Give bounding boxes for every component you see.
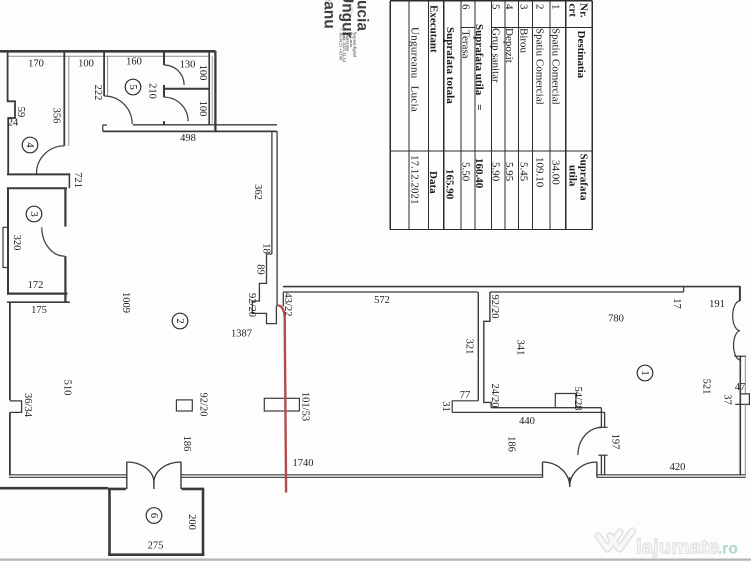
svg-text:275: 275: [148, 541, 164, 552]
svg-text:1740: 1740: [293, 458, 314, 469]
wall room1 top inner east: [490, 291, 683, 293]
svg-text:2: 2: [174, 318, 186, 324]
svg-text:170: 170: [28, 59, 44, 70]
bottom gray border: [0, 558, 751, 560]
wall bottom middle line1: [181, 474, 543, 476]
svg-text:321: 321: [464, 339, 475, 355]
svg-text:54/28: 54/28: [572, 387, 583, 411]
svg-text:356: 356: [51, 108, 62, 124]
room6 bottom wall: [108, 553, 204, 556]
wall small rooms right inner: [208, 53, 210, 126]
door arc room5: [104, 96, 132, 124]
svg-text:101/53: 101/53: [300, 392, 311, 421]
wall top-right outer vertical: [214, 51, 216, 132]
wall room4 right inner: [68, 56, 70, 146]
svg-text:721: 721: [72, 172, 83, 188]
svg-text:197: 197: [610, 434, 621, 450]
table row boundary lines: [409, 1, 566, 230]
room6 left wall: [108, 489, 111, 556]
wall 197 lower: [601, 455, 604, 475]
svg-text:31: 31: [440, 401, 451, 412]
digital signature small text: [339, 32, 358, 63]
svg-text:191: 191: [709, 299, 725, 310]
window protrusion room3: [3, 227, 8, 267]
svg-text:2: 2: [534, 4, 546, 10]
wall bottom east line2: [597, 476, 746, 478]
wall room3 left: [7, 188, 9, 294]
svg-text:Birou: Birou: [518, 28, 530, 54]
svg-text:186: 186: [181, 436, 192, 452]
svg-text:100: 100: [197, 65, 208, 81]
room number 1: [637, 365, 653, 381]
svg-text:186: 186: [506, 436, 517, 452]
svg-text:37: 37: [722, 394, 733, 405]
svg-text:eanu: eanu: [321, 0, 338, 29]
svg-text:420: 420: [670, 462, 686, 473]
door jamb 197 top: [598, 426, 607, 428]
svg-text:Spatiu Comercial: Spatiu Comercial: [534, 28, 546, 105]
room1 double door jamb left: [542, 462, 544, 478]
notch 54/28: [555, 394, 576, 408]
pier inner line: [276, 254, 278, 306]
partition room5 upper: [163, 53, 165, 66]
hallway top wall: [133, 124, 277, 126]
svg-text:780: 780: [608, 314, 624, 325]
svg-text:100: 100: [197, 101, 208, 117]
svg-text:222: 222: [92, 85, 103, 101]
svg-text:92/20: 92/20: [489, 295, 500, 319]
door arc 197: [578, 428, 602, 456]
svg-text:Data: Data: [427, 171, 439, 194]
room1 double door arc right: [570, 462, 597, 487]
svg-text:5.45: 5.45: [518, 162, 530, 182]
svg-text:109.10: 109.10: [534, 157, 546, 188]
room6 double door arc right: [154, 462, 181, 482]
wall room4 left with notch 59/24: [8, 51, 15, 175]
wall room3 bottom outer: [7, 301, 70, 303]
room6 top west segment: [108, 488, 126, 491]
svg-text:3: 3: [28, 211, 40, 217]
room6 double door center tick: [153, 482, 155, 489]
wall 440 bottom line: [452, 411, 605, 413]
room1 double door jamb right: [596, 462, 598, 478]
svg-text:92/20: 92/20: [246, 293, 257, 317]
room1 double door arc left: [543, 462, 570, 487]
svg-text:5.95: 5.95: [503, 162, 515, 182]
door arc small room 130: [164, 65, 184, 85]
svg-text:Spatiu Comercial: Spatiu Comercial: [550, 28, 562, 105]
wall room3 top: [7, 187, 67, 189]
svg-text:200: 200: [186, 514, 197, 530]
svg-text:1387: 1387: [231, 329, 252, 340]
wall room4 bottom: [7, 173, 70, 175]
wall room3 right upper: [64, 188, 66, 226]
svg-text:47: 47: [735, 382, 746, 393]
svg-text:Terasa: Terasa: [460, 30, 472, 59]
door arc small room 100 lower: [164, 97, 188, 121]
svg-text:440: 440: [519, 416, 535, 427]
svg-text:572: 572: [374, 295, 390, 306]
room1 double door center tick: [569, 477, 571, 487]
svg-text:77: 77: [460, 390, 471, 401]
room6 double door jamb right: [180, 462, 182, 489]
svg-text:24: 24: [8, 118, 19, 129]
svg-text:24/20: 24/20: [489, 384, 500, 408]
door arc room3: [42, 227, 65, 256]
svg-text:Depozit: Depozit: [503, 28, 515, 63]
room6 top east segment: [182, 488, 205, 491]
door jamb right wall: [734, 355, 746, 357]
svg-text:1009: 1009: [120, 292, 131, 313]
partition room5 middle: [163, 85, 165, 97]
wall right top: [739, 286, 741, 301]
wall bottom middle line2: [181, 476, 543, 478]
wall 321 left line: [477, 292, 479, 401]
terrace wall bottom-left: [0, 487, 108, 490]
svg-text:521: 521: [701, 379, 712, 395]
partition room5 lower: [163, 121, 165, 125]
digital signature flourish: [340, 4, 352, 30]
wall right middle: [739, 356, 741, 475]
svg-text:175: 175: [31, 305, 47, 316]
hallway bottom wall: [103, 130, 277, 132]
room number 3: [26, 206, 42, 222]
wall 321 right line with nib 92/20: [484, 292, 491, 408]
wall right middle outer: [744, 356, 746, 394]
svg-text:utila: utila: [567, 165, 579, 187]
svg-text:UngureanuLucia: UngureanuLucia: [409, 27, 421, 112]
pillar 101/53 in room2: [264, 398, 299, 411]
wall room4 right: [63, 52, 65, 146]
svg-text:17: 17: [671, 298, 682, 309]
svg-text:36/34: 36/34: [22, 393, 33, 418]
svg-text:Grup sanitar: Grup sanitar: [490, 28, 502, 83]
svg-text:498: 498: [180, 133, 196, 144]
wall small rooms right inner light: [211, 56, 213, 125]
svg-text:crt: crt: [567, 4, 579, 18]
wall bottom west line2: [9, 476, 127, 478]
red divider line: [278, 306, 287, 493]
room number 2: [172, 313, 188, 329]
room6 right wall: [202, 489, 205, 556]
svg-text:4: 4: [24, 142, 36, 148]
wall room5 left: [103, 52, 105, 96]
svg-text:16:04:23 +02'00': 16:04:23 +02'00': [339, 32, 344, 61]
svg-text:160: 160: [126, 57, 142, 68]
svg-text:17.12.2021: 17.12.2021: [409, 155, 421, 205]
wall jog 17: [683, 287, 685, 292]
wall room2 left upper: [9, 302, 11, 400]
svg-text:59: 59: [15, 107, 26, 118]
table outer border: [390, 1, 592, 230]
svg-text:5: 5: [127, 84, 139, 90]
wall bottom east line1: [597, 474, 746, 476]
svg-text:510: 510: [62, 380, 73, 396]
wall stub between room4 and room3: [68, 174, 70, 188]
door arc room4: [37, 146, 65, 174]
room number 6: [146, 508, 162, 524]
svg-text:320: 320: [11, 235, 22, 251]
svg-text:160.40: 160.40: [473, 158, 485, 189]
wall room1 top outer: [283, 286, 740, 288]
svg-text:6: 6: [460, 4, 472, 10]
svg-text:5.50: 5.50: [460, 162, 472, 182]
svg-text:Destinatia: Destinatia: [575, 31, 587, 79]
wall right lower outer: [744, 404, 746, 475]
divider small rooms: [164, 88, 210, 90]
room6 double door arc left: [127, 462, 154, 482]
svg-text:.ro: .ro: [718, 541, 738, 558]
sill notch 37/47: [735, 394, 749, 405]
svg-text:3: 3: [518, 4, 530, 10]
svg-text:Executant: Executant: [428, 5, 440, 53]
room6 double door jamb left: [126, 462, 128, 489]
wall top outer: [0, 50, 216, 53]
door jamb 197 bottom: [598, 454, 607, 456]
pillar 92/20 in room2: [176, 400, 192, 411]
pier stub 43/22: [282, 292, 284, 306]
svg-text:362: 362: [252, 184, 263, 200]
wall room1 top inner west: [283, 291, 478, 293]
wall bottom west line1: [9, 474, 127, 476]
wall 362 divider right line: [276, 131, 278, 254]
wall room3 right lower: [64, 256, 66, 302]
svg-text:210: 210: [147, 83, 158, 99]
pilaster notch 36/34: [10, 401, 22, 413]
svg-text:lajumate: lajumate: [636, 536, 719, 559]
svg-text:4: 4: [503, 4, 515, 10]
svg-text:165.90: 165.90: [444, 169, 456, 200]
svg-text:18: 18: [261, 243, 272, 254]
svg-text:34.00: 34.00: [550, 160, 562, 185]
svg-text:89: 89: [255, 264, 266, 275]
svg-text:1: 1: [550, 4, 562, 10]
svg-text:130: 130: [180, 60, 196, 71]
wall room2 left lower: [9, 412, 11, 475]
watermark logo W: [598, 531, 633, 549]
wall room3 bottom: [7, 293, 68, 295]
wall top inner line: [8, 55, 209, 57]
room number 5: [125, 79, 141, 95]
wall 197 upper: [601, 408, 604, 428]
table column divider Nr/Destinatia: [461, 27, 592, 29]
svg-text:5.90: 5.90: [490, 162, 502, 182]
pier steps at wall 362 bottom: [252, 254, 276, 324]
hallway wall end cap: [103, 125, 107, 131]
svg-text:341: 341: [515, 340, 526, 356]
wall 362 divider left line: [271, 131, 273, 254]
svg-text:Suprafata totala: Suprafata totala: [444, 27, 456, 104]
wall 440 top line: [491, 407, 601, 409]
table column divider Destinatia/Suprafata: [390, 150, 592, 152]
svg-text:1: 1: [639, 370, 651, 376]
door arcs right wall outward: [733, 301, 740, 360]
svg-text:6: 6: [148, 513, 160, 519]
svg-text:92/20: 92/20: [198, 393, 209, 417]
svg-text:5: 5: [490, 4, 502, 10]
wall room5 left inner: [107, 56, 109, 96]
svg-text:43/22: 43/22: [282, 293, 293, 317]
room number 4: [22, 137, 38, 153]
svg-text:100: 100: [78, 59, 94, 70]
jog 77/31: [452, 401, 478, 413]
svg-text:172: 172: [28, 280, 44, 291]
